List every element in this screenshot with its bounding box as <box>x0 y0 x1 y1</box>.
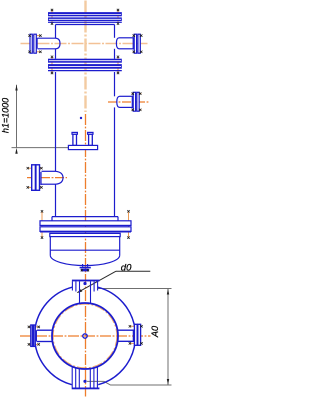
LL nozzle <box>32 165 36 191</box>
MR nozzle <box>133 92 135 111</box>
top cover line <box>48 12 122 14</box>
bottom flange assembly <box>52 216 118 218</box>
bottom view left <box>29 326 39 328</box>
UR <box>133 35 142 37</box>
svg-text:d0: d0 <box>121 263 132 274</box>
internals: distributor <box>73 134 77 145</box>
LL <box>28 167 42 169</box>
bolts: drain stub flange <box>81 269 83 271</box>
dimension text <box>1 98 160 338</box>
shell walls upper section <box>55 25 57 39</box>
bottom stub <box>82 264 84 267</box>
inner circle <box>52 303 118 369</box>
left nozzle <box>31 325 33 346</box>
dimension arrowheads <box>15 85 169 385</box>
bolts: bottom-view left nozzle flange <box>28 326 30 328</box>
grey dimension lines <box>12 85 172 385</box>
BLUE STRUCTURE <box>30 13 140 272</box>
bolts: body mid flange <box>51 56 53 58</box>
orange bolt circle (bottom view) <box>53 304 117 368</box>
upper nozzle axis <box>21 43 148 45</box>
UR nozzle <box>134 34 136 53</box>
bolts: bottom-view right nozzle flange <box>129 325 131 327</box>
A0 dim <box>167 289 169 386</box>
bolts: bottom body flange <box>41 210 43 212</box>
UL nozzle <box>30 34 32 53</box>
shell walls lower section <box>55 72 57 171</box>
main vertical axis <box>85 114 87 397</box>
bolts: lower-left nozzle flange <box>27 167 29 169</box>
bottom head <box>49 237 51 256</box>
bolts: mid-right nozzle flange <box>132 92 134 94</box>
top nozzle <box>72 280 100 282</box>
mid flange bars <box>48 59 122 69</box>
bottom view horizontal axis <box>20 335 151 337</box>
bolts: top cover flange <box>51 9 53 11</box>
bolts: upper-left nozzle flange <box>28 34 30 36</box>
nozzle bolt lines UL <box>30 35 41 37</box>
bolts: upper-right nozzle flange <box>133 34 135 36</box>
bottom nozzle <box>72 388 100 390</box>
lower nozzle axis <box>27 177 67 179</box>
pale axis segments <box>84 1 86 113</box>
right nozzle <box>134 324 137 345</box>
black bolt x-marks <box>27 9 143 346</box>
svg-text:h1=1000: h1=1000 <box>1 98 11 133</box>
BOTTOM VIEW <box>31 280 141 390</box>
bottom view right <box>130 325 142 327</box>
top flange bars <box>48 13 122 21</box>
d0 leader <box>78 271 151 292</box>
centerlines group <box>20 44 151 397</box>
h1 dim <box>16 85 18 148</box>
bolt centerlines (orange) <box>28 10 142 344</box>
outer circle (interrupted at nozzles) <box>98 287 135 330</box>
MR <box>132 93 142 95</box>
center hub <box>83 334 87 338</box>
svg-text:A0: A0 <box>150 325 160 338</box>
mid nozzle axis <box>108 101 150 103</box>
